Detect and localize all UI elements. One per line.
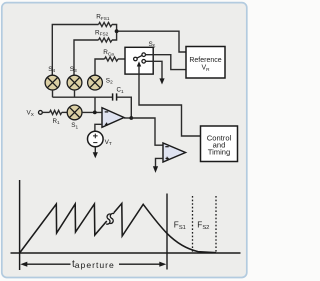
- dashed line FS1 end: [192, 196, 194, 253]
- block Control and Timing: [201, 126, 238, 162]
- dashed line FS2 end: [215, 196, 217, 253]
- wire S4 riser to RFS1: [52, 25, 98, 76]
- node RFS junction: [115, 29, 119, 33]
- switch S5 control arrow: [138, 66, 140, 74]
- ground arrow below VT: [94, 147, 96, 153]
- wire S5 control to Control box: [139, 74, 201, 136]
- input terminal VX: [39, 111, 43, 115]
- wire U2 plus input to ground: [156, 158, 164, 166]
- wire RCa to switch S5: [118, 58, 134, 60]
- wire S5 upper contact to Reference box: [146, 55, 187, 70]
- wire RFS2 right to junction: [112, 31, 117, 40]
- resistor RFS2: [99, 38, 112, 42]
- aperture end solid line: [166, 194, 168, 270]
- resistor RCa: [105, 57, 118, 61]
- resistor RFS1: [99, 22, 112, 26]
- block Reference VR: [186, 47, 225, 79]
- switch S1: [67, 105, 82, 130]
- switch S3: [67, 66, 82, 90]
- resistor R1: [50, 110, 62, 114]
- wire bus under S4 S3 S2: [53, 90, 113, 112]
- waveform x axis: [11, 252, 241, 254]
- wire S5 lower contact down: [146, 61, 163, 79]
- waveform break symbol: [106, 213, 114, 224]
- switch S5 contacts and lever: [134, 53, 146, 63]
- svg-text:Timing: Timing: [208, 148, 231, 157]
- wire S2 riser to RCa: [95, 59, 105, 75]
- wire R1 to S1: [62, 111, 67, 113]
- wire VX to R1: [42, 111, 49, 113]
- node summing junction: [93, 111, 97, 115]
- switch S2: [88, 75, 113, 90]
- svg-text:taperture: taperture: [72, 259, 115, 270]
- op-amp U2 comparator: [163, 143, 186, 162]
- wire U1 plus input to VT: [95, 124, 102, 131]
- node U1 output: [129, 116, 133, 120]
- svg-text:Reference: Reference: [189, 57, 221, 64]
- switch S5 box: [125, 47, 153, 74]
- waveform sawtooth curve: [20, 203, 216, 253]
- ground arrow below S5 lower contact: [159, 78, 164, 84]
- op-amp U1 integrator: [102, 108, 124, 128]
- ground arrow at U2 plus input: [153, 166, 158, 173]
- voltage source VT: [88, 131, 112, 147]
- capacitor C1: [113, 93, 117, 100]
- switch S4: [45, 66, 60, 90]
- wire RFS1 right to junction: [112, 25, 117, 32]
- aperture arrow: [26, 263, 160, 265]
- wire junction to Reference box: [117, 31, 186, 52]
- wire output node to comparator: [131, 118, 163, 145]
- wire U1 output to node: [124, 117, 131, 119]
- waveform y axis: [19, 180, 21, 270]
- wire S1 to summing node: [82, 111, 102, 113]
- wire S3 riser to RFS2: [74, 40, 99, 75]
